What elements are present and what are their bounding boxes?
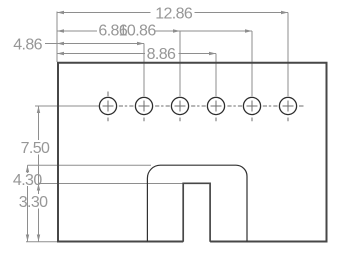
hole 4 bbox=[207, 97, 224, 121]
dimension 7.50 line bbox=[37, 106, 40, 242]
svg-text:4.30: 4.30 bbox=[13, 172, 42, 189]
extension line hole4 x217 bbox=[215, 54, 217, 97]
hole 5 bbox=[243, 97, 260, 121]
dimension 4.86 line bbox=[45, 42, 144, 45]
svg-text:10.86: 10.86 bbox=[119, 23, 157, 40]
extension line boss top y165.3 bbox=[28, 164, 152, 166]
svg-text:7.50: 7.50 bbox=[21, 140, 50, 157]
dimension 6.86 line bbox=[57, 29, 180, 32]
boss outline rounded bbox=[147, 165, 247, 241]
part outline bbox=[58, 63, 327, 242]
centerline extension left bbox=[35, 105, 100, 107]
dimension 10.86 line bbox=[155, 29, 253, 32]
svg-text:4.86: 4.86 bbox=[13, 36, 42, 53]
extension line hole6 x288 bbox=[287, 13, 289, 97]
extension line hole2 x144 bbox=[143, 44, 145, 97]
extension line notch top y183.5 bbox=[39, 183, 184, 185]
svg-text:3.30: 3.30 bbox=[19, 194, 48, 211]
dimension 8.86 line bbox=[57, 52, 216, 55]
hole 1 bbox=[99, 92, 116, 122]
svg-text:8.86: 8.86 bbox=[147, 46, 176, 63]
dimension 4.30 line bbox=[26, 165, 29, 241]
hole 2 bbox=[135, 97, 152, 121]
dimension 12.86 line bbox=[57, 11, 288, 14]
centerline dash-dot between holes bbox=[119, 105, 304, 107]
svg-text:12.86: 12.86 bbox=[155, 5, 193, 22]
hole 6 bbox=[279, 97, 296, 121]
extension line bottom edge y241.7 bbox=[26, 241, 57, 243]
notch slot bbox=[183, 183, 210, 242]
extension line hole3 x180 bbox=[179, 31, 181, 96]
hole 3 bbox=[171, 97, 188, 121]
extension line left edge vertical x57 bbox=[56, 12, 58, 63]
dimension 3.30 arrow bbox=[37, 184, 40, 191]
extension line hole5 x252 bbox=[251, 31, 253, 96]
